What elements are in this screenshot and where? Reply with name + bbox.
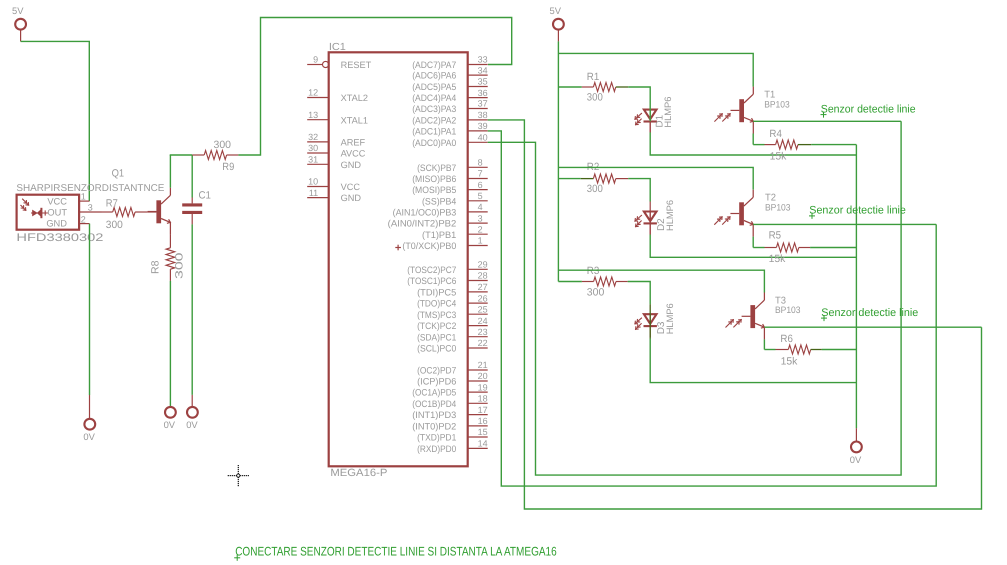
IC1 pin 20 (ICP)PD6	[468, 380, 488, 382]
IC1 pin 7 (MISO)PB6	[468, 178, 488, 180]
svg-text:(TDI)PC5: (TDI)PC5	[417, 288, 456, 298]
IC1 pin 8 (SCK)PB7	[468, 166, 488, 168]
IC1 pin 18 (OC1B)PD4	[468, 402, 488, 404]
IC1 pin 6 (MOSI)PB5	[468, 189, 488, 191]
power 5V supply symbol (right)	[553, 19, 564, 30]
svg-text:4: 4	[478, 202, 483, 212]
ground 0V symbol (sensor)	[84, 419, 95, 430]
svg-text:7: 7	[478, 169, 483, 179]
svg-text:300: 300	[587, 286, 605, 298]
wire 5V to T3 collector	[558, 270, 764, 292]
IC1 pin 1 (T0/XCK)PB0	[468, 245, 488, 247]
svg-text:Senzor detectie linie: Senzor detectie linie	[809, 205, 906, 217]
svg-text:36: 36	[478, 88, 488, 98]
wire T1 emitter to ADC line	[753, 120, 901, 122]
svg-text:(AIN1/OC0)PB3: (AIN1/OC0)PB3	[393, 208, 457, 218]
svg-text:XTAL2: XTAL2	[341, 93, 368, 103]
svg-text:32: 32	[308, 132, 318, 142]
svg-text:(ADC5)PA5: (ADC5)PA5	[412, 82, 456, 92]
IC1 pin 5 (SS)PB4	[468, 200, 488, 202]
svg-text:19: 19	[478, 382, 488, 392]
IC1 pin 31 GND	[307, 163, 329, 165]
wire 5V stub (right)	[557, 30, 559, 42]
wire T2 emitter node down to R5	[752, 237, 754, 248]
svg-text:22: 22	[478, 338, 488, 348]
LED D1 HLMP6	[649, 110, 651, 133]
IC1 pin 11 GND	[307, 197, 329, 199]
svg-text:39: 39	[478, 121, 488, 131]
svg-text:5: 5	[478, 191, 483, 201]
svg-text:GND: GND	[341, 160, 362, 170]
wire T3 emitter to ADC line	[764, 326, 981, 328]
svg-text:(TDO)PC4: (TDO)PC4	[417, 299, 456, 309]
svg-text:(TMS)PC3: (TMS)PC3	[417, 310, 456, 320]
svg-text:12: 12	[308, 88, 318, 98]
resistor R9	[192, 154, 204, 156]
svg-text:300: 300	[173, 252, 185, 279]
IC1 pin 17 (INT1)PD3	[468, 414, 488, 416]
svg-text:(INT0)PD2: (INT0)PD2	[412, 422, 456, 432]
svg-text:Senzor detectie linie: Senzor detectie linie	[821, 307, 918, 319]
svg-text:VCC: VCC	[47, 197, 67, 207]
svg-text:25: 25	[478, 304, 488, 314]
IC1 pin 16 (INT0)PD2	[468, 425, 488, 427]
wire R7 to Q1 base	[148, 211, 157, 213]
svg-text:40: 40	[478, 133, 488, 143]
IC1 pin 39 (ADC1)PA1	[468, 130, 488, 132]
svg-text:5V: 5V	[550, 5, 562, 16]
power 5V supply symbol (left)	[15, 19, 26, 30]
resistor R7	[102, 211, 113, 213]
wire Q1 collector to R9 node	[169, 155, 171, 188]
IC1 pin 15 (TXD)PD1	[468, 436, 488, 438]
IC1 pin 12 XTAL2	[307, 97, 329, 99]
svg-text:(SCK)PB7: (SCK)PB7	[417, 163, 456, 173]
svg-text:GND: GND	[341, 193, 362, 203]
wire IC1 pin 40 (ADC0/PA0) to T1 emitter	[488, 121, 901, 475]
svg-text:18: 18	[478, 394, 488, 404]
svg-text:GND: GND	[46, 219, 67, 229]
wire R9 to IC1 pin 33 (ADC7)	[238, 18, 511, 156]
svg-text:(MISO)PB6: (MISO)PB6	[412, 174, 456, 184]
IC1 pin 3 (AIN0/INT2)PB2	[468, 222, 488, 224]
phototransistor T2 BP103	[722, 216, 730, 224]
svg-text:35: 35	[478, 77, 488, 87]
svg-text:(ADC2)PA2: (ADC2)PA2	[412, 116, 456, 126]
resistor R4 15k	[753, 144, 764, 146]
wire 5V to T1 collector	[558, 53, 753, 86]
svg-text:(ADC1)PA1: (ADC1)PA1	[412, 127, 456, 137]
svg-text:15k: 15k	[781, 356, 799, 368]
resistor R3	[558, 281, 582, 283]
ground 0V symbol (R8)	[165, 407, 176, 418]
svg-text:9: 9	[313, 55, 318, 65]
svg-text:14: 14	[478, 439, 488, 449]
wire C1 to 0V	[191, 224, 193, 395]
IC1 pin 27 (TDI)PC5	[468, 291, 488, 293]
svg-text:(RXD)PD0: (RXD)PD0	[417, 444, 456, 454]
svg-text:HFD3380302: HFD3380302	[16, 232, 103, 244]
wire IC1 pin 38 (ADC2/PA2) to T3 emitter	[488, 120, 982, 509]
svg-text:Q1: Q1	[112, 167, 125, 179]
svg-text:RESET: RESET	[341, 60, 372, 70]
wire D3 cathode to 0V rail	[650, 339, 856, 383]
component SHARPIRSENZORDISTANTNCE sensor box HFD3380302	[17, 195, 80, 230]
svg-text:(INT1)PD3: (INT1)PD3	[412, 410, 456, 420]
svg-text:(ADC6)PA6: (ADC6)PA6	[412, 71, 456, 81]
svg-text:11: 11	[309, 188, 318, 198]
svg-text:38: 38	[478, 110, 488, 120]
svg-text:BP103: BP103	[765, 202, 791, 212]
svg-text:HLMP6: HLMP6	[665, 303, 675, 334]
svg-text:17: 17	[478, 405, 488, 415]
svg-text:1: 1	[478, 236, 483, 246]
IC1 pin 10 VCC	[307, 186, 329, 188]
IC1 pin 22 (SCL)PC0	[468, 347, 488, 349]
transistor Q1	[156, 200, 161, 223]
svg-text:R4: R4	[769, 128, 782, 140]
resistor R6 15k	[764, 349, 775, 351]
wire 5V rail down (right)	[557, 41, 559, 281]
svg-text:HLMP6: HLMP6	[663, 97, 673, 128]
svg-text:(ADC3)PA3: (ADC3)PA3	[412, 104, 456, 114]
IC1 pin 21 (OC2)PD7	[468, 369, 488, 371]
svg-text:13: 13	[308, 110, 318, 120]
wire D1 cathode to 0V rail	[649, 122, 651, 132]
svg-text:6: 6	[478, 180, 483, 190]
svg-text:300: 300	[106, 219, 123, 231]
IC1 pin 28 (TOSC1)PC6	[468, 280, 488, 282]
svg-text:(ICP)PD6: (ICP)PD6	[417, 377, 456, 387]
wire sensor GND to 0V	[89, 224, 91, 395]
svg-text:C1: C1	[199, 189, 212, 201]
svg-text:27: 27	[478, 282, 488, 292]
svg-text:Senzor detectie linie: Senzor detectie linie	[821, 103, 916, 115]
svg-text:BP103: BP103	[775, 305, 801, 315]
svg-text:(OC1B)PD4: (OC1B)PD4	[412, 399, 456, 409]
sensor pin 1 (VCC)	[79, 200, 89, 202]
IC1 pin 23 (SDA)PC1	[468, 336, 488, 338]
svg-text:34: 34	[478, 65, 488, 75]
wire T2 emitter to ADC line	[753, 223, 936, 225]
IC1 pin 9 RESET	[307, 64, 322, 66]
LED D2 HLMP6	[649, 212, 651, 235]
svg-text:31: 31	[308, 155, 318, 165]
svg-text:R1: R1	[587, 71, 600, 83]
wire R3 to D3 anode	[628, 282, 651, 305]
ground 0V symbol (C1)	[187, 407, 198, 418]
svg-text:R7: R7	[106, 197, 118, 209]
svg-text:(SDA)PC1: (SDA)PC1	[417, 332, 456, 342]
svg-text:SHARPIRSENZORDISTANTNCE: SHARPIRSENZORDISTANTNCE	[16, 183, 164, 194]
svg-text:OUT: OUT	[47, 207, 67, 217]
phototransistor T1 BP103	[722, 113, 730, 121]
svg-text:AVCC: AVCC	[341, 149, 366, 159]
wire R1 to D1 anode	[628, 87, 650, 121]
sensor pin 2 (GND)	[79, 223, 89, 225]
IC1 pin 34 (ADC6)PA6	[468, 74, 488, 76]
svg-text:5V: 5V	[12, 5, 24, 16]
svg-text:BP103: BP103	[764, 99, 790, 109]
svg-text:R5: R5	[769, 230, 782, 242]
resistor R8	[166, 248, 175, 269]
wire 0V rail (right)	[855, 145, 857, 429]
IC1 pin 13 XTAL1	[307, 119, 329, 121]
wire R2 to D2 anode	[628, 179, 650, 202]
svg-text:300: 300	[214, 139, 232, 151]
svg-text:24: 24	[478, 316, 488, 326]
wire IC1 pin 39 (ADC1/PA1) to T2 emitter	[488, 131, 937, 486]
svg-text:AREF: AREF	[341, 138, 366, 148]
svg-text:15: 15	[478, 427, 488, 437]
svg-text:R9: R9	[222, 161, 234, 173]
svg-text:(TXD)PD1: (TXD)PD1	[417, 433, 456, 443]
svg-text:IC1: IC1	[329, 42, 346, 53]
svg-text:0V: 0V	[164, 419, 176, 430]
svg-text:(ADC0)PA0: (ADC0)PA0	[412, 138, 456, 148]
IC1 pin 30 AVCC	[307, 152, 329, 154]
svg-text:MEGA16-P: MEGA16-P	[330, 467, 387, 479]
ground 0V symbol (right)	[851, 442, 862, 453]
svg-text:23: 23	[478, 327, 488, 337]
svg-text:28: 28	[478, 271, 488, 281]
svg-text:(ADC4)PA4: (ADC4)PA4	[412, 93, 456, 103]
IC1 pin 14 (RXD)PD0	[468, 447, 488, 449]
IC1 pin 4 (AIN1/OC0)PB3	[468, 211, 488, 213]
wire R8 to 0V	[169, 281, 171, 407]
svg-text:R6: R6	[780, 333, 793, 345]
svg-text:(TOSC1)PC6: (TOSC1)PC6	[407, 276, 456, 286]
wire 5V to T2 collector	[558, 167, 753, 189]
svg-text:(MOSI)PB5: (MOSI)PB5	[412, 185, 456, 195]
svg-text:15k: 15k	[770, 150, 788, 162]
IC1 pin 37 (ADC3)PA3	[468, 108, 488, 110]
wire D2 cathode to 0V rail	[650, 235, 856, 258]
svg-text:(TCK)PC2: (TCK)PC2	[417, 321, 456, 331]
IC1 pin 25 (TMS)PC3	[468, 313, 488, 315]
sensor pin 3 (OUT)	[79, 211, 101, 213]
IC1 pin 36 (ADC4)PA4	[468, 97, 488, 99]
svg-text:(ADC7)PA7: (ADC7)PA7	[412, 60, 456, 70]
svg-text:1: 1	[81, 192, 86, 202]
resistor R5 15k	[753, 247, 764, 249]
svg-text:300: 300	[587, 183, 603, 195]
capacitor C1	[191, 155, 193, 198]
IC1 pin 24 (TCK)PC2	[468, 325, 488, 327]
svg-text:(T0/XCK)PB0: (T0/XCK)PB0	[402, 241, 456, 251]
LED D3 HLMP6	[649, 314, 651, 337]
svg-text:20: 20	[478, 371, 488, 381]
svg-text:(OC1A)PD5: (OC1A)PD5	[412, 388, 456, 398]
svg-text:VCC: VCC	[341, 182, 361, 192]
svg-text:R3: R3	[587, 265, 600, 277]
IC1 pin 2 (T1)PB1	[468, 233, 488, 235]
IC1 pin 35 (ADC5)PA5	[468, 86, 488, 88]
svg-text:(SS)PB4: (SS)PB4	[422, 196, 456, 206]
svg-text:CONECTARE SENZORI DETECTIE LIN: CONECTARE SENZORI DETECTIE LINIE SI DIST…	[235, 544, 557, 558]
svg-text:XTAL1: XTAL1	[341, 115, 368, 125]
phototransistor T3 BP103	[733, 319, 741, 327]
svg-text:15k: 15k	[769, 253, 787, 265]
svg-text:(TOSC2)PC7: (TOSC2)PC7	[407, 265, 456, 275]
svg-text:0V: 0V	[83, 431, 95, 442]
resistor R1	[558, 86, 581, 88]
svg-text:8: 8	[478, 158, 483, 168]
IC1 pin 33 (ADC7)PA7	[468, 64, 488, 66]
svg-text:(T1)PB1: (T1)PB1	[422, 230, 456, 240]
IC1 pin 19 (OC1A)PD5	[468, 391, 488, 393]
svg-text:2: 2	[478, 224, 483, 234]
svg-text:16: 16	[478, 416, 488, 426]
svg-text:26: 26	[478, 293, 488, 303]
svg-text:300: 300	[587, 92, 603, 104]
svg-text:29: 29	[478, 260, 488, 270]
wire T1 emitter node down to R4	[752, 134, 754, 145]
svg-text:(AIN0/INT2)PB2: (AIN0/INT2)PB2	[388, 219, 457, 229]
svg-text:0V: 0V	[850, 454, 862, 465]
svg-text:33: 33	[478, 55, 488, 65]
svg-text:(OC2)PD7: (OC2)PD7	[417, 366, 456, 376]
svg-text:3: 3	[88, 202, 93, 212]
svg-text:10: 10	[308, 177, 318, 187]
resistor R2	[558, 178, 580, 180]
IC1 pin 38 (ADC2)PA2	[468, 119, 488, 121]
svg-text:21: 21	[478, 360, 488, 370]
wire T3 emitter node down to R6	[763, 339, 765, 349]
sensor photodiode glyph	[22, 199, 29, 206]
IC1 pin 26 (TDO)PC4	[468, 302, 488, 304]
svg-text:3: 3	[478, 213, 483, 223]
svg-text:37: 37	[478, 99, 488, 109]
IC1 pin 32 AREF	[307, 141, 329, 143]
wire 5V stub	[20, 30, 22, 42]
svg-text:30: 30	[308, 143, 318, 153]
svg-text:HLMP6: HLMP6	[665, 200, 675, 231]
svg-text:(SCL)PC0: (SCL)PC0	[417, 344, 456, 354]
svg-text:R8: R8	[149, 260, 161, 274]
svg-text:2: 2	[81, 214, 86, 224]
wire 5V to sensor VCC pin 1	[21, 41, 90, 201]
IC1 pin 40 (ADC0)PA0	[468, 141, 488, 143]
IC IC1 MEGA16-P box	[329, 52, 468, 466]
IC1 pin 29 (TOSC2)PC7	[468, 268, 488, 270]
origin crosshair marker	[228, 475, 229, 476]
svg-text:0V: 0V	[186, 419, 198, 430]
